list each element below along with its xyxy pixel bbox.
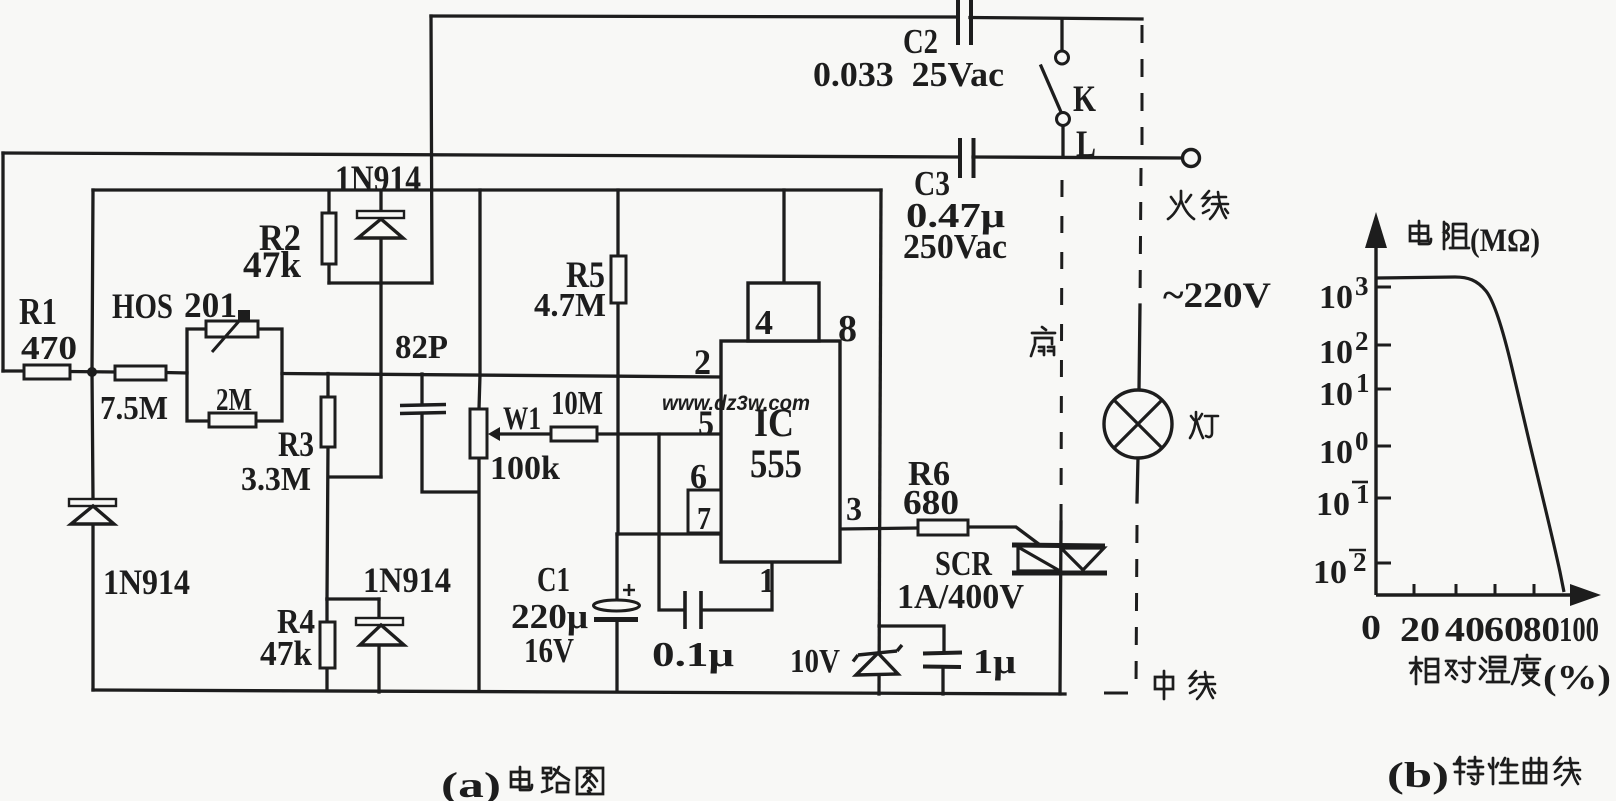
capacitor C2 plates	[958, 0, 971, 45]
thermistor box in HOS	[206, 321, 258, 337]
resistor 7.5M box	[115, 366, 166, 380]
wire right vertical x881	[879, 190, 881, 694]
resistor R3 box	[321, 397, 335, 447]
svg-text:0: 0	[1355, 426, 1369, 456]
svg-text:2: 2	[1353, 547, 1367, 577]
wire bottom rail	[93, 690, 1065, 694]
svg-text:100: 100	[1559, 610, 1599, 649]
svg-text:1: 1	[1356, 479, 1370, 509]
svg-text:(%): (%)	[1543, 658, 1611, 697]
dashed lamp line upper	[1141, 25, 1144, 150]
label shan (fan)	[1031, 327, 1055, 356]
svg-text:4: 4	[755, 303, 773, 342]
svg-text:47k: 47k	[243, 245, 301, 286]
svg-text:250Vac: 250Vac	[903, 227, 1007, 266]
svg-text:100k: 100k	[490, 450, 560, 487]
svg-text:7.5M: 7.5M	[100, 390, 168, 427]
svg-text:470: 470	[21, 330, 77, 367]
wire R2 stubs	[327, 191, 330, 283]
wire W1 wiper to 10M	[498, 432, 721, 435]
graph x ticks	[1414, 584, 1534, 595]
graph y ticks	[1376, 287, 1391, 563]
label zhongxian (neutral wire)	[1155, 671, 1173, 699]
wire triac vertical to bottom rail	[1060, 522, 1061, 694]
graph x-axis	[1376, 584, 1601, 606]
svg-text:6: 6	[690, 457, 707, 496]
dashed neutral continuation	[1104, 692, 1128, 695]
svg-text:680: 680	[903, 483, 959, 522]
svg-text:10: 10	[1319, 334, 1353, 371]
wire vertical x659 down to 0.1u	[659, 434, 684, 610]
wire diode D1 branch	[379, 191, 382, 477]
svg-text:10: 10	[1313, 554, 1347, 591]
wire 0.1u right to pin1 stub	[702, 562, 772, 610]
thermistor arrow in HOS	[212, 310, 250, 352]
graph resistance curve	[1376, 277, 1564, 592]
svg-text:3.3M: 3.3M	[241, 461, 311, 498]
svg-text:0.1μ: 0.1μ	[652, 635, 734, 674]
svg-text:K: K	[1073, 79, 1096, 120]
svg-text:2: 2	[1355, 326, 1369, 356]
IC 555 box	[721, 341, 840, 562]
svg-text:4.7M: 4.7M	[534, 287, 606, 324]
svg-text:60: 60	[1484, 610, 1524, 649]
wire R5/C1 vertical branch	[617, 190, 618, 690]
wire IC pin4 stub	[782, 190, 785, 283]
svg-text:10M: 10M	[551, 385, 603, 422]
svg-text:R1: R1	[19, 291, 57, 333]
resistor 2M box	[209, 413, 256, 427]
svg-text:(b): (b)	[1387, 755, 1449, 795]
triac SCR	[1012, 545, 1107, 573]
lamp symbol	[1104, 390, 1172, 458]
wire left vertical x93	[92, 190, 93, 690]
svg-text:R3: R3	[278, 424, 314, 464]
svg-text:1N914: 1N914	[363, 560, 451, 600]
svg-text:16V: 16V	[524, 631, 574, 670]
svg-text:201: 201	[184, 285, 237, 325]
wire left edge down to R1	[1, 153, 4, 371]
svg-text:3: 3	[1355, 271, 1369, 301]
svg-text:80: 80	[1523, 610, 1560, 649]
dashed fan line	[1061, 180, 1062, 522]
wire third rail	[93, 188, 881, 191]
wire vertical from top rail to R2/D1 bottom connector	[431, 16, 432, 283]
potentiometer W1 box	[470, 409, 487, 458]
svg-text:1μ: 1μ	[973, 642, 1016, 681]
capacitor 1u plates	[923, 653, 962, 668]
wire lamp leads	[1137, 305, 1140, 502]
svg-text:(a): (a)	[441, 765, 501, 801]
label deng (lamp)	[1190, 412, 1218, 438]
svg-text:www.dz3w.com: www.dz3w.com	[662, 392, 810, 415]
potentiometer W1 vertical branch	[479, 190, 480, 690]
svg-text:82P: 82P	[395, 329, 448, 366]
switch K contact circles	[1056, 51, 1069, 64]
wire zener/1u top connector	[879, 626, 944, 694]
dashed lamp line lower	[1136, 525, 1137, 688]
W1 wiper arrow	[488, 427, 500, 441]
wire pin7 row	[617, 532, 721, 535]
diode D1 1N914 top	[357, 211, 404, 238]
svg-text:10: 10	[1319, 434, 1353, 471]
graph y-axis	[1365, 212, 1387, 595]
graph x-axis title xiangduishidu (relative humidity)	[1410, 657, 1438, 684]
resistor R1 box	[24, 365, 70, 379]
svg-text:(MΩ): (MΩ)	[1470, 223, 1540, 259]
humidity sensor HOS block frame	[187, 329, 282, 421]
wire top rail	[431, 16, 1142, 19]
wire live rail (second)	[3, 153, 1183, 158]
svg-text:1: 1	[759, 561, 775, 600]
zener diode 10V	[853, 645, 902, 675]
svg-text:1A/400V: 1A/400V	[897, 577, 1024, 616]
resistor 10M box	[551, 427, 597, 441]
dashed lamp line middle	[1140, 168, 1141, 305]
svg-text:2: 2	[694, 342, 711, 382]
svg-text:1N914: 1N914	[103, 562, 190, 602]
svg-text:L: L	[1076, 124, 1096, 165]
IC pin6/7 notch box	[688, 490, 721, 533]
resistor R6 box	[918, 520, 968, 535]
wire jog to R4/D3 pair	[327, 597, 379, 600]
wire diode D3 branch	[377, 599, 380, 692]
svg-text:HOS: HOS	[112, 286, 173, 326]
wire R1 row	[3, 371, 187, 373]
caption (b) texingquxian (characteristic curve)	[1454, 757, 1483, 784]
wire switch stubs	[1062, 19, 1063, 157]
diode D2 1N914 left	[69, 499, 116, 524]
caption (a) dianlutu (circuit diagram)	[511, 767, 532, 790]
resistor R4 box	[320, 622, 335, 668]
svg-text:0.033 25Vac: 0.033 25Vac	[813, 55, 1004, 94]
svg-text:C1: C1	[537, 560, 570, 599]
svg-text:2M: 2M	[216, 381, 252, 417]
svg-text:40: 40	[1445, 610, 1485, 649]
wire R2/D1 bottom connector	[329, 281, 432, 284]
IC pin4/8 top box	[748, 283, 819, 341]
graph y-axis title dianzu (resistance)	[1410, 221, 1431, 244]
svg-text:7: 7	[697, 500, 711, 536]
junction node dot	[87, 367, 97, 377]
capacitor 0.1u plates	[685, 591, 701, 629]
capacitor 82P plates	[400, 405, 446, 414]
wire R3 branch and jog	[327, 374, 381, 600]
wire R4 stubs	[325, 599, 328, 690]
wire switch blade	[1041, 66, 1061, 112]
capacitor C3 plates	[960, 138, 974, 178]
resistor R5 box	[611, 256, 626, 303]
svg-text:~220V: ~220V	[1163, 275, 1271, 315]
svg-text:10: 10	[1319, 376, 1353, 413]
terminal circle live wire	[1183, 150, 1200, 167]
capacitor C1 electrolytic	[594, 584, 640, 620]
svg-text:0: 0	[1361, 608, 1381, 647]
svg-text:47k: 47k	[260, 634, 313, 673]
svg-text:10V: 10V	[790, 643, 840, 680]
svg-text:3: 3	[846, 491, 862, 528]
diode D3 1N914 bottom	[356, 618, 404, 645]
capacitor 82P stubs	[422, 374, 478, 492]
svg-text:10: 10	[1319, 279, 1353, 316]
svg-text:1: 1	[1356, 368, 1370, 398]
svg-text:W1: W1	[503, 401, 541, 437]
svg-text:555: 555	[750, 441, 802, 486]
wire main sensor rail from HOS to IC pin2	[282, 374, 721, 378]
wire pin3 row to R6 and triac gate	[840, 527, 1040, 545]
label huoxian (live wire)	[1168, 191, 1194, 219]
svg-text:1N914: 1N914	[335, 159, 421, 200]
svg-text:10: 10	[1316, 486, 1350, 523]
svg-text:8: 8	[838, 308, 857, 350]
svg-text:20: 20	[1400, 610, 1440, 649]
resistor R2 box	[322, 213, 336, 264]
